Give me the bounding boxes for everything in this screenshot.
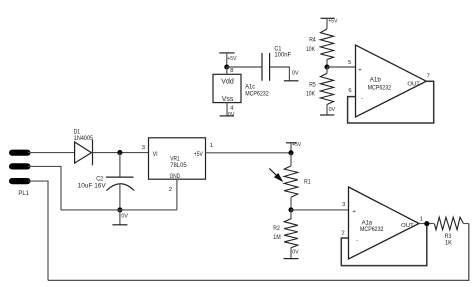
wire A1a feedback loop <box>341 224 427 266</box>
svg-text:1: 1 <box>210 143 213 149</box>
junction R4/R5 node <box>324 64 329 69</box>
svg-text:+: + <box>358 67 362 73</box>
wire PL1 pin3 to bottom rail <box>28 181 48 280</box>
svg-text:Vdd: Vdd <box>221 78 234 85</box>
resistor R2 <box>284 210 298 248</box>
wire C1 to ground <box>270 67 290 81</box>
svg-text:GND: GND <box>170 173 181 180</box>
wire bottom rail <box>48 224 469 281</box>
resistor R3 <box>434 217 463 230</box>
wire A1c Vss pin <box>226 103 228 116</box>
svg-text:78L05: 78L05 <box>170 162 187 169</box>
ground 0V below C2 <box>112 210 128 225</box>
svg-text:+5V: +5V <box>227 56 236 62</box>
resistor R4 <box>320 29 333 60</box>
junction A1c Vdd node <box>224 64 229 69</box>
svg-text:A1b: A1b <box>370 77 381 84</box>
capacitor C1 <box>262 53 270 81</box>
power +5V above R1 <box>286 142 301 153</box>
ground 0V below R2 <box>284 248 299 259</box>
svg-text:0V: 0V <box>329 107 336 113</box>
svg-text:R1: R1 <box>304 179 311 186</box>
junction C2 top <box>117 150 122 155</box>
svg-text:Vss: Vss <box>222 96 234 103</box>
diode D1 <box>75 140 93 166</box>
svg-text:1K: 1K <box>445 240 453 247</box>
svg-text:100nF: 100nF <box>274 52 291 59</box>
junction C2 bottom / 0V rail <box>117 207 122 212</box>
svg-text:MCP6232: MCP6232 <box>360 226 384 233</box>
svg-text:10uF 16V: 10uF 16V <box>78 182 107 189</box>
svg-text:10K: 10K <box>306 91 316 98</box>
svg-text:2: 2 <box>341 230 344 236</box>
op-amp power block A1c box <box>213 74 241 102</box>
power +5V above A1c <box>219 53 236 67</box>
svg-text:1M: 1M <box>273 234 281 241</box>
wire PL1 pin1 to D1 anode <box>28 152 75 154</box>
junction R1 top node <box>288 150 293 155</box>
svg-text:VI: VI <box>153 151 158 158</box>
wire VR1 GND to 0V rail <box>176 179 178 210</box>
wire 0V rail <box>61 209 177 211</box>
wire node to A1b pin5 <box>327 66 356 68</box>
svg-text:-: - <box>356 238 358 244</box>
resistor R1 <box>284 153 298 210</box>
wire VR1 output to R1 node <box>206 152 292 154</box>
resistor R5 <box>320 67 333 105</box>
svg-text:0V: 0V <box>292 71 299 77</box>
power +5V above R4 <box>321 18 338 29</box>
wire C2 bottom lead <box>119 184 121 210</box>
svg-text:1: 1 <box>420 217 423 223</box>
svg-text:7: 7 <box>427 74 430 80</box>
svg-text:+5V: +5V <box>194 151 204 158</box>
svg-text:0V: 0V <box>121 214 128 220</box>
wire A1c node to C1 <box>227 66 262 68</box>
op-amp U1b triangle A1b <box>356 45 427 117</box>
svg-text:+: + <box>352 209 356 215</box>
svg-text:0V: 0V <box>292 250 299 256</box>
svg-text:PL1: PL1 <box>18 190 29 197</box>
svg-text:MCP6232: MCP6232 <box>368 84 392 91</box>
svg-text:10K: 10K <box>306 46 316 53</box>
capacitor C2 <box>106 177 134 190</box>
connector PL1 pin 3 <box>9 178 31 184</box>
ground 0V below A1c <box>220 112 235 118</box>
wire R4 to node <box>326 60 328 68</box>
junction R1/R2 node <box>288 207 293 212</box>
svg-text:2: 2 <box>169 187 172 193</box>
svg-text:R5: R5 <box>309 82 316 89</box>
svg-text:R2: R2 <box>273 225 280 232</box>
wire D1 cathode to VR1 VI <box>93 152 149 154</box>
connector PL1 pin 1 <box>9 150 31 156</box>
regulator VR1 box <box>149 138 206 179</box>
svg-text:0V: 0V <box>228 112 235 118</box>
svg-text:-: - <box>361 96 363 102</box>
op-amp U1a triangle A1a <box>349 187 420 259</box>
svg-text:1N4005: 1N4005 <box>74 135 94 142</box>
wire R3 to bottom rail <box>463 223 468 225</box>
connector PL1 pin 2 <box>9 163 31 169</box>
wire A1b feedback loop <box>348 81 434 123</box>
ground 0V right of C1 <box>284 71 299 81</box>
wire C2 top lead <box>119 153 121 178</box>
wire node to A1a pin3 <box>291 209 349 211</box>
ground 0V below R5 <box>320 105 335 116</box>
svg-text:R4: R4 <box>309 37 316 44</box>
wire A1a output to R3 <box>419 223 434 225</box>
arrow pointing at R1 (sensor) <box>269 168 282 180</box>
wire PL1 pin2 to 0V rail <box>28 166 61 210</box>
svg-text:+5V: +5V <box>328 19 337 25</box>
svg-text:MCP6232: MCP6232 <box>245 90 269 97</box>
svg-text:OUT: OUT <box>401 223 414 229</box>
junction A1a output node <box>424 221 429 226</box>
svg-text:+5V: +5V <box>292 142 301 148</box>
svg-text:OUT: OUT <box>407 82 420 88</box>
wire node to A1c Vdd pin <box>226 67 228 74</box>
